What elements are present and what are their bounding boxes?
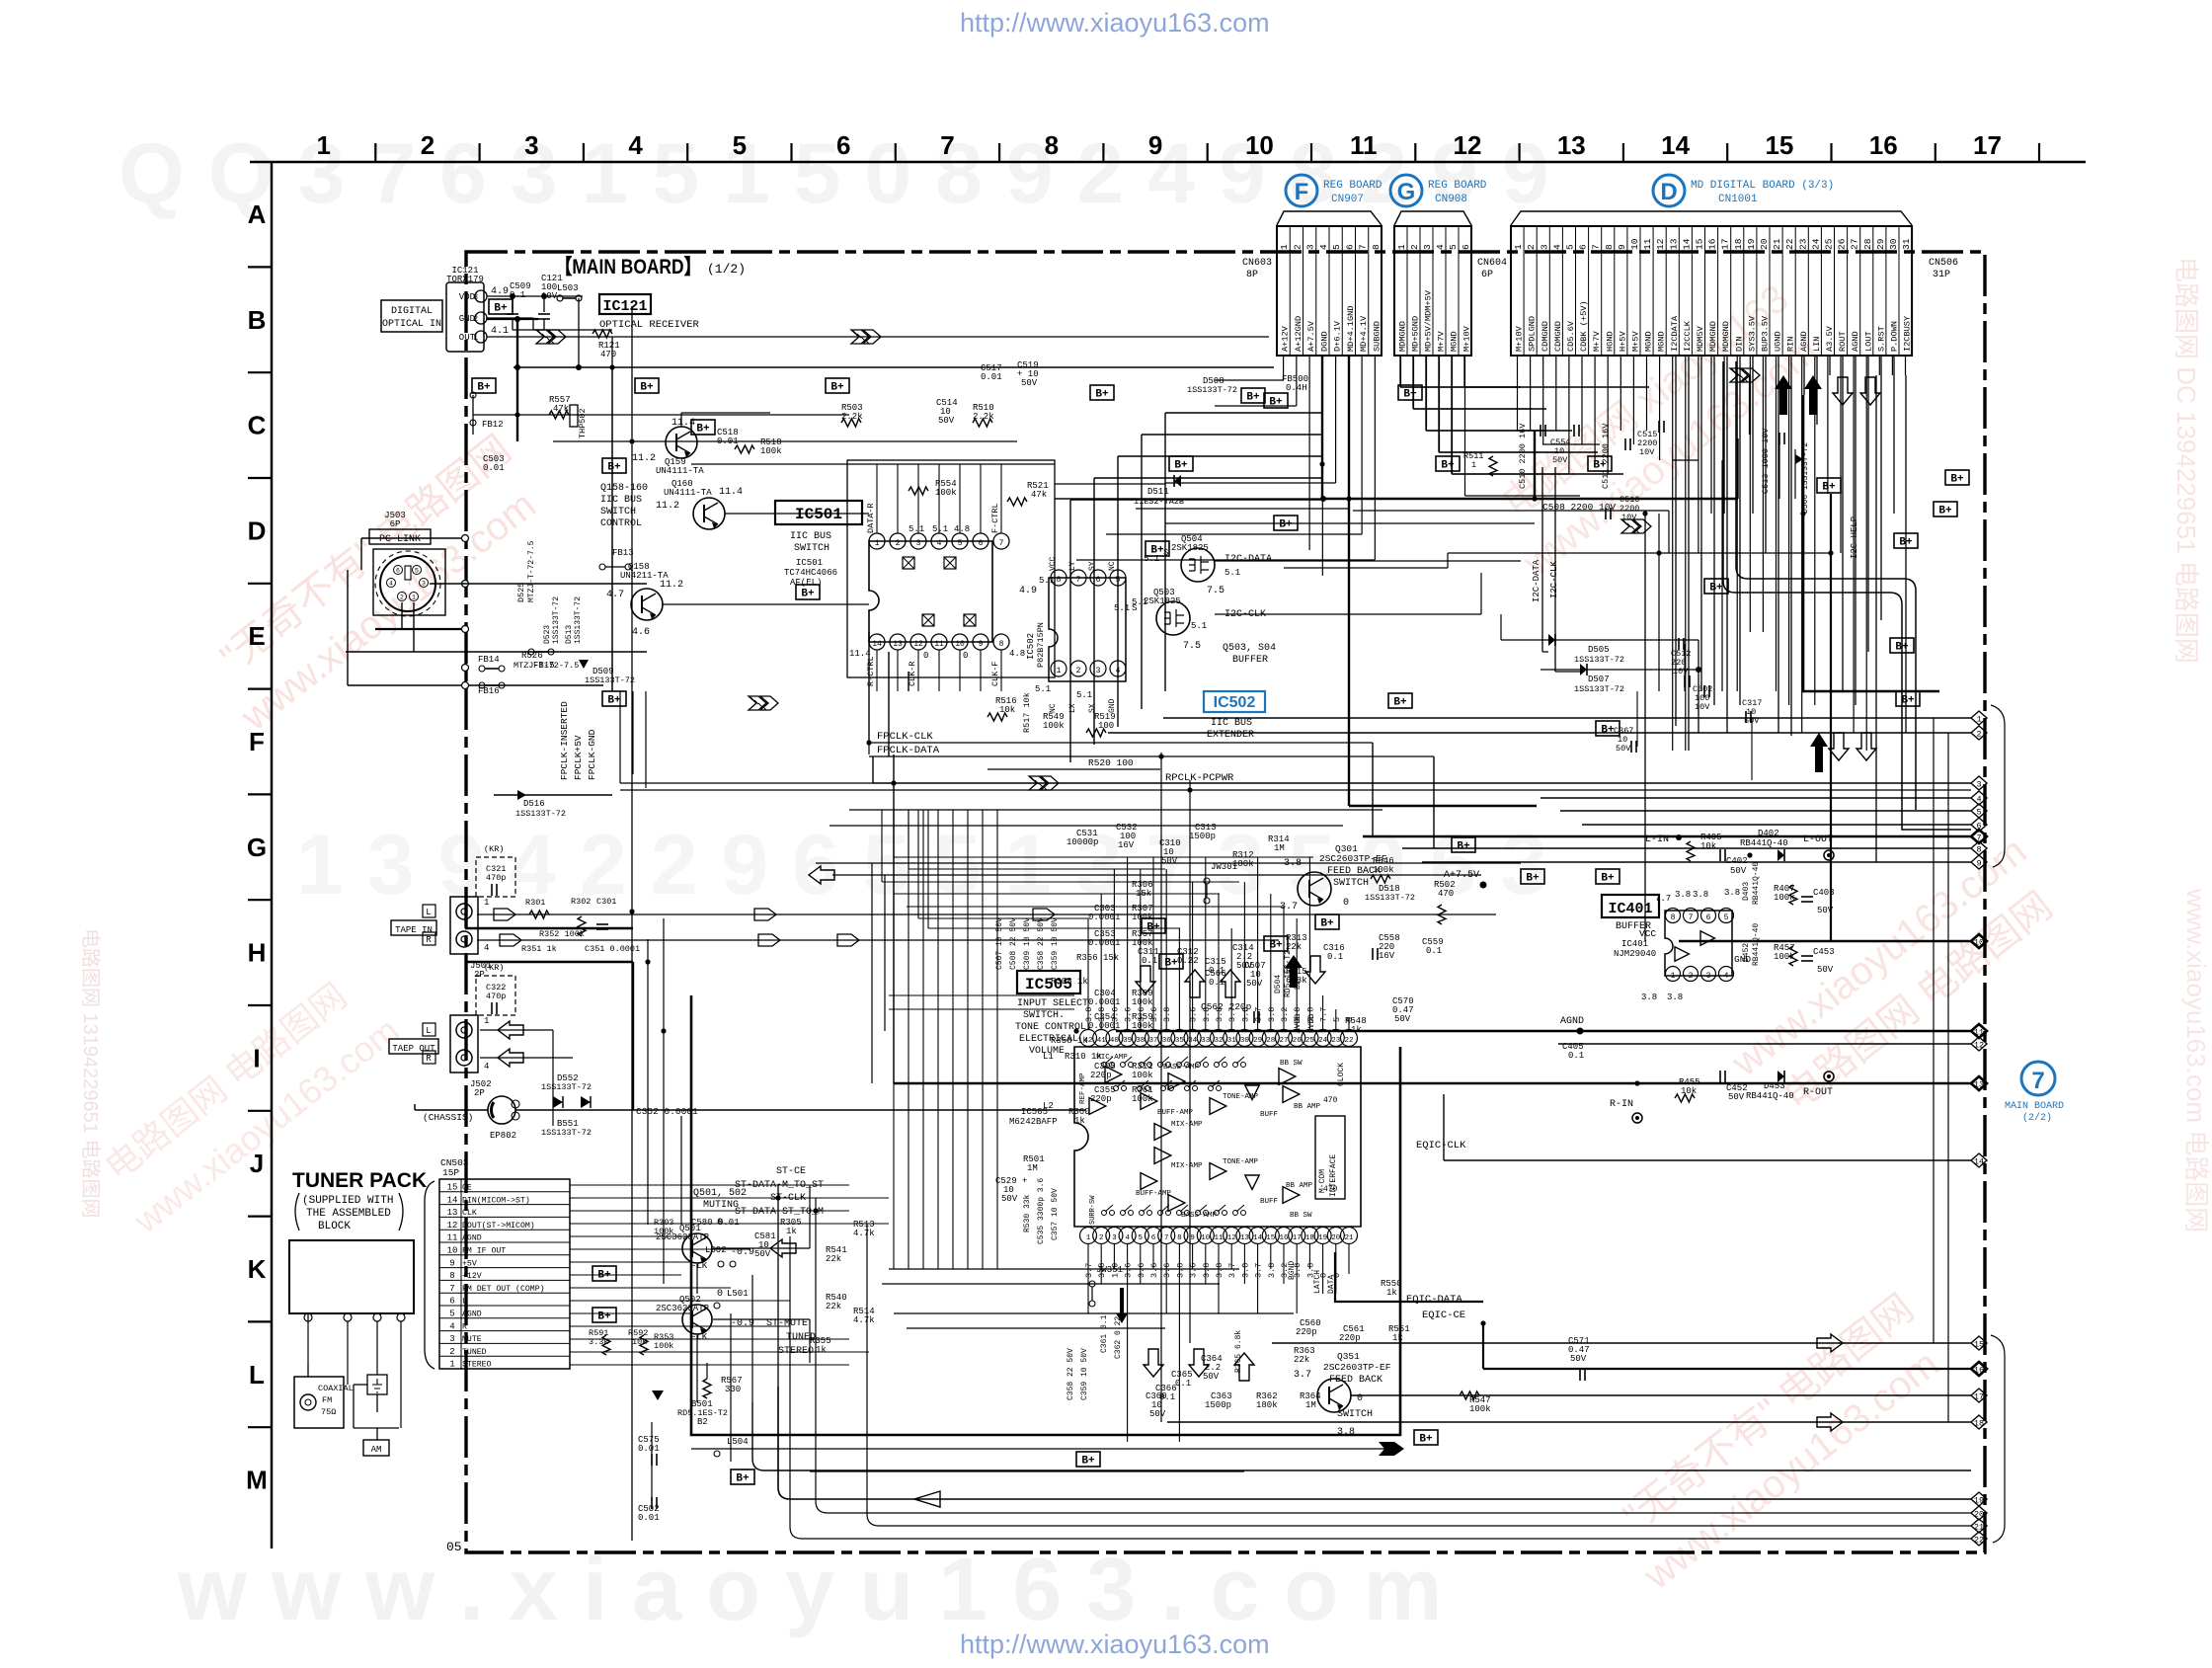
svg-text:MD+5GND: MD+5GND — [1411, 316, 1421, 352]
svg-text:R-OUT: R-OUT — [1803, 1087, 1833, 1098]
svg-text:1SS133T-72: 1SS133T-72 — [1365, 893, 1415, 903]
wire CN1001 curtain deep drops — [1675, 356, 1677, 726]
watermark pink diagonal left lower — [89, 963, 407, 1241]
svg-text:26: 26 — [1837, 238, 1848, 250]
svg-text:4.1: 4.1 — [491, 326, 509, 337]
svg-text:7: 7 — [449, 1284, 454, 1294]
wire GND thick — [486, 318, 538, 320]
IC505 top fan wires — [1087, 918, 1089, 1029]
svg-text:VCC: VCC — [1049, 556, 1058, 571]
svg-text:50V: 50V — [1161, 856, 1178, 866]
wire optical gnd — [533, 329, 612, 331]
svg-text:3.6: 3.6 — [1137, 1263, 1146, 1278]
power B+ label — [1704, 579, 1728, 594]
svg-text:4: 4 — [1976, 795, 1981, 805]
svg-text:UGND: UGND — [1774, 331, 1783, 352]
filled arrows under RIN LIN — [1775, 375, 1792, 415]
svg-text:05: 05 — [446, 1540, 462, 1554]
main board dash-dot border — [466, 252, 1985, 1552]
svg-text:3.8: 3.8 — [1202, 1263, 1212, 1278]
CN1001 pin drop wires — [1517, 356, 1519, 431]
svg-text:1M: 1M — [1274, 843, 1285, 853]
svg-text:B+: B+ — [1393, 697, 1407, 709]
svg-text:TORX179: TORX179 — [446, 275, 484, 284]
wire 1973 vertical — [1947, 733, 1949, 1422]
svg-text:TAPE IN: TAPE IN — [395, 925, 433, 935]
power B+ label — [1315, 914, 1339, 929]
wire 1930 vertical — [1905, 375, 1907, 733]
svg-text:C507 10 50V: C507 10 50V — [995, 917, 1004, 970]
svg-text:DGND: DGND — [1319, 331, 1329, 352]
svg-text:D513: D513 — [565, 625, 574, 644]
svg-text:19: 19 — [1746, 238, 1757, 250]
tuner bottom wires — [651, 1422, 653, 1501]
tuner pack wires down — [307, 1313, 309, 1363]
svg-text:M6242BAFP: M6242BAFP — [1009, 1117, 1058, 1127]
svg-text:5.1: 5.1 — [932, 524, 948, 534]
svg-text:I2CDATA: I2CDATA — [1670, 315, 1680, 352]
svg-text:220p: 220p — [1090, 1094, 1112, 1104]
right bracket curve — [1991, 705, 2005, 867]
svg-text:L: L — [426, 1026, 431, 1036]
svg-text:16V: 16V — [1118, 840, 1135, 850]
digital optical in label box — [381, 300, 442, 332]
svg-text:http://www.xiaoyu163.com: http://www.xiaoyu163.com — [960, 1629, 1270, 1659]
svg-text:100k: 100k — [1469, 1404, 1491, 1414]
TAEP OUT jack body — [450, 1015, 478, 1072]
svg-text:14: 14 — [1661, 130, 1690, 160]
svg-text:1SS133T-72: 1SS133T-72 — [541, 1082, 592, 1092]
svg-text:FPCLK-DATA: FPCLK-DATA — [877, 745, 940, 756]
svg-text:IC401: IC401 — [1621, 939, 1648, 949]
svg-text:DOUT(ST->MICOM): DOUT(ST->MICOM) — [462, 1221, 535, 1231]
svg-text:2: 2 — [421, 130, 434, 160]
fan horizontals above ic505 — [894, 856, 1313, 858]
svg-text:BB SW: BB SW — [1290, 1212, 1312, 1220]
wire to edge 19 with elbow — [778, 1387, 1971, 1499]
PC LINK pins — [394, 566, 403, 575]
svg-text:26: 26 — [1293, 1037, 1303, 1045]
svg-text:16: 16 — [1974, 1366, 1984, 1376]
svg-text:0: 0 — [1332, 1273, 1342, 1278]
svg-text:0.1: 0.1 — [1426, 946, 1442, 956]
power B+ label — [691, 420, 715, 435]
TUNER PACK box — [289, 1240, 414, 1313]
wire I2C to left — [1542, 651, 1548, 653]
svg-text:B+: B+ — [1150, 545, 1164, 557]
power B+ label — [1274, 516, 1298, 530]
svg-text:3.7: 3.7 — [1227, 1263, 1237, 1278]
svg-text:11: 11 — [934, 640, 944, 649]
svg-text:4.7: 4.7 — [606, 590, 624, 600]
svg-text:19: 19 — [1974, 1496, 1984, 1506]
svg-text:10k: 10k — [999, 705, 1015, 715]
edge connector arrow 13 — [1971, 1076, 1987, 1090]
edge connector arrow 4 — [1971, 791, 1987, 805]
wire to edge 9 — [1422, 861, 1971, 863]
svg-text:BB SW: BB SW — [1280, 1060, 1303, 1068]
power B+ label — [602, 458, 626, 473]
verticals left of IC505 block — [893, 810, 895, 1269]
svg-text:10: 10 — [955, 640, 965, 649]
svg-text:(1/2): (1/2) — [707, 262, 746, 277]
svg-text:7: 7 — [1689, 913, 1694, 922]
wire GND drop — [532, 318, 534, 330]
svg-text:OUT: OUT — [459, 333, 476, 343]
svg-text:C301: C301 — [596, 897, 616, 907]
vertical 1744 — [1721, 460, 1723, 691]
tape R line — [477, 939, 1279, 941]
svg-text:BUFF-AMP: BUFF-AMP — [1157, 1109, 1194, 1117]
svg-text:7.7: 7.7 — [1319, 1007, 1329, 1022]
svg-text:0: 0 — [1319, 1273, 1329, 1278]
svg-text:B+: B+ — [1269, 940, 1283, 952]
svg-text:22k: 22k — [826, 1302, 841, 1311]
svg-text:A+7.5V: A+7.5V — [1306, 320, 1316, 352]
svg-text:S: S — [1132, 603, 1137, 613]
svg-text:6P: 6P — [1481, 270, 1493, 280]
filled arrow C367 — [1810, 733, 1828, 772]
svg-text:4: 4 — [1318, 244, 1329, 250]
TUNER PACK pins — [304, 1313, 312, 1321]
svg-text:3.2: 3.2 — [1280, 1007, 1290, 1022]
svg-text:0.1: 0.1 — [1175, 1379, 1191, 1389]
svg-text:RPCLK-PCPWR: RPCLK-PCPWR — [1165, 772, 1234, 784]
wire to edge 12 — [1558, 1043, 1971, 1045]
board ref D circle MD DIGITAL BOARD — [1653, 175, 1685, 206]
svg-text:R: R — [426, 935, 432, 945]
vertical 1466 — [1447, 553, 1449, 568]
edge connector arrow 8 — [1971, 841, 1987, 855]
svg-text:MIX-AMP: MIX-AMP — [1171, 1162, 1203, 1170]
svg-text:MD+5V/MDM+5V: MD+5V/MDM+5V — [1424, 289, 1434, 352]
svg-text:13: 13 — [1668, 238, 1679, 250]
svg-text:8: 8 — [1604, 244, 1615, 250]
svg-text:BUFFER: BUFFER — [1232, 655, 1268, 666]
power B+ label — [826, 378, 849, 393]
svg-text:BUFF: BUFF — [1260, 1198, 1278, 1206]
connector CN604 pin array — [1394, 226, 1471, 356]
edge connector arrow 18 — [1971, 1415, 1987, 1429]
svg-text:(CHASSIS): (CHASSIS) — [423, 1112, 473, 1123]
svg-text:(SUPPLIED WITH: (SUPPLIED WITH — [302, 1195, 393, 1207]
Q159 transistor — [666, 427, 697, 458]
svg-text:31P: 31P — [1933, 270, 1950, 280]
wire cascade elbow set A — [1399, 356, 1401, 387]
svg-text:L501: L501 — [727, 1289, 749, 1299]
svg-text:3.8: 3.8 — [1293, 1007, 1303, 1022]
svg-text:IC501: IC501 — [796, 558, 823, 568]
power B+ label — [592, 1308, 616, 1322]
svg-text:6: 6 — [1578, 244, 1589, 250]
svg-text:2: 2 — [1689, 972, 1694, 981]
wire RPCLK long to edge — [620, 789, 1971, 791]
svg-text:5.1: 5.1 — [1035, 684, 1051, 694]
svg-text:FM: FM — [322, 1395, 332, 1405]
power B+ label — [592, 1266, 616, 1281]
svg-text:SWITCH: SWITCH — [600, 507, 636, 517]
svg-text:ROUT: ROUT — [1838, 331, 1848, 352]
svg-text:L504: L504 — [727, 1437, 749, 1447]
junction C509 — [510, 293, 515, 299]
svg-text:36: 36 — [1162, 1037, 1172, 1045]
svg-text:S.RST: S.RST — [1876, 326, 1886, 352]
watermark pink diagonal right upper — [1478, 277, 1833, 586]
wires IC501 bottom fan — [876, 650, 878, 691]
svg-text:R358 1k: R358 1k — [1051, 1036, 1088, 1046]
PC LINK label box — [369, 529, 431, 544]
svg-text:4.8: 4.8 — [954, 524, 970, 534]
svg-text:4: 4 — [1551, 244, 1562, 250]
svg-text:1: 1 — [1471, 460, 1476, 470]
svg-text:D507: D507 — [1588, 675, 1610, 684]
svg-text:CN604: CN604 — [1477, 258, 1507, 269]
power B+ label — [1142, 918, 1165, 933]
svg-text:B+: B+ — [494, 303, 508, 315]
svg-text:470p: 470p — [486, 992, 506, 1001]
svg-text:CDBK (+5V): CDBK (+5V) — [1579, 300, 1589, 352]
IC401 top pins — [1666, 909, 1681, 923]
svg-text:7: 7 — [1164, 1234, 1169, 1242]
TAEP OUT jack L — [456, 1022, 472, 1038]
svg-text:4: 4 — [389, 581, 393, 588]
svg-text:1SS133T-72: 1SS133T-72 — [541, 1128, 592, 1138]
svg-text:3.8: 3.8 — [1084, 1007, 1094, 1022]
svg-text:8: 8 — [1057, 576, 1062, 585]
power B+ label — [1398, 385, 1422, 400]
svg-text:CE: CE — [462, 1184, 472, 1193]
svg-text:SYS3.5V: SYS3.5V — [1747, 315, 1757, 352]
svg-text:3.8: 3.8 — [1240, 1263, 1250, 1278]
svg-text:SX: SX — [1088, 703, 1097, 713]
svg-text:L: L — [249, 1360, 265, 1390]
wire Q160 — [725, 513, 869, 515]
FPCLK-DATA wire — [869, 755, 1434, 757]
svg-text:CONTROL: CONTROL — [600, 518, 642, 529]
svg-text:3.8: 3.8 — [1293, 1263, 1303, 1278]
mid thin lines to IC401 ins — [889, 994, 1074, 996]
power B+ label — [1890, 638, 1914, 653]
wire tape bus right — [484, 911, 632, 913]
harrow mid x840 — [837, 934, 859, 946]
svg-text:R365 6.8k: R365 6.8k — [1234, 1330, 1243, 1373]
tape thick bus 1 — [465, 927, 633, 929]
IC505 bottom pin row — [1080, 1228, 1097, 1244]
connector CN604 brace — [1394, 211, 1471, 225]
svg-text:5: 5 — [1331, 244, 1342, 250]
RPCLK-PCPWR wire — [620, 782, 873, 784]
svg-text:PC LINK: PC LINK — [379, 534, 421, 545]
svg-text:FPCLK-INSERTED: FPCLK-INSERTED — [559, 701, 570, 780]
collector lines below IC505 — [889, 1268, 1239, 1270]
svg-text:R301: R301 — [525, 898, 545, 908]
svg-text:4: 4 — [1125, 1234, 1130, 1242]
wire to edge 3 — [873, 782, 1971, 784]
svg-text:180k: 180k — [1256, 1400, 1278, 1410]
svg-text:B+: B+ — [1269, 397, 1283, 409]
svg-text:MGND: MGND — [1450, 331, 1460, 352]
svg-text:7: 7 — [940, 130, 954, 160]
svg-text:R351 1k: R351 1k — [521, 944, 557, 954]
svg-text:CDMGND: CDMGND — [1540, 321, 1550, 352]
svg-text:12: 12 — [1227, 1234, 1236, 1242]
power B+ label — [1145, 541, 1169, 556]
svg-text:M-COM: M-COM — [1318, 1169, 1327, 1193]
svg-text:11.4: 11.4 — [849, 649, 871, 659]
svg-text:B+: B+ — [1950, 474, 1964, 486]
svg-text:UN4211-TA: UN4211-TA — [620, 571, 669, 581]
edge connector arrow 10 — [1971, 934, 1987, 948]
svg-text:16: 16 — [1707, 238, 1718, 250]
svg-text:EQIC-CE: EQIC-CE — [1422, 1310, 1465, 1321]
power B+ label — [1264, 936, 1288, 951]
svg-text:29: 29 — [1875, 238, 1886, 250]
svg-text:100k: 100k — [654, 1341, 673, 1351]
power B+ label — [489, 299, 513, 314]
svg-text:1: 1 — [1671, 972, 1676, 981]
svg-text:D: D — [248, 516, 267, 545]
svg-text:MD+4.1GND: MD+4.1GND — [1346, 306, 1356, 352]
svg-text:8: 8 — [1976, 845, 1981, 855]
wire long rail y372 — [513, 366, 1274, 368]
vertical from OUT node — [611, 337, 613, 367]
power B+ label — [1436, 456, 1460, 471]
svg-text:RB441Q-40: RB441Q-40 — [1740, 838, 1788, 848]
wire EP802 to diodes — [515, 1109, 632, 1111]
R301 resistor sym — [529, 911, 549, 918]
svg-text:B+: B+ — [1822, 482, 1836, 494]
svg-text:0.0001: 0.0001 — [1088, 1021, 1120, 1031]
IC501 switch symbols — [903, 557, 914, 569]
svg-text:5.1: 5.1 — [1039, 576, 1055, 586]
wire pclink pin3 right — [430, 583, 647, 585]
svg-text:1: 1 — [875, 539, 880, 548]
vertical from FPCLK-CLK down — [1372, 743, 1374, 836]
connector CN1001 pin array — [1511, 226, 1912, 356]
svg-text:2SC3623ATP: 2SC3623ATP — [656, 1304, 709, 1313]
svg-text:REF-AMP: REF-AMP — [1079, 1072, 1087, 1104]
harrow tape mid — [770, 1239, 796, 1257]
svg-text:3: 3 — [1112, 1234, 1117, 1242]
KR dashed box C322 — [476, 976, 515, 1015]
svg-text:BB AMP: BB AMP — [1286, 1182, 1313, 1190]
svg-text:ST-CE: ST-CE — [776, 1166, 806, 1177]
power B+ label — [1090, 385, 1114, 400]
svg-text:B+: B+ — [830, 382, 844, 394]
I2C vertical pair — [1541, 467, 1543, 652]
svg-text:5: 5 — [1332, 1017, 1342, 1022]
svg-text:1k: 1k — [816, 1345, 827, 1355]
wire to edge 17 — [1351, 1394, 1971, 1396]
svg-text:8: 8 — [1371, 244, 1382, 250]
IC121 label — [599, 294, 651, 314]
svg-text:22: 22 — [1344, 1037, 1353, 1045]
svg-text:6: 6 — [979, 539, 984, 548]
svg-text:10: 10 — [1974, 938, 1984, 948]
FB12 ferrite — [472, 395, 474, 435]
svg-text:17: 17 — [1293, 1234, 1302, 1242]
svg-text:24: 24 — [1810, 238, 1821, 250]
wire to edge 13 thick — [894, 1082, 1971, 1085]
svg-text:6: 6 — [1461, 244, 1471, 250]
svg-text:14: 14 — [1681, 238, 1692, 250]
svg-text:TAEP OUT: TAEP OUT — [392, 1044, 435, 1054]
svg-text:OPTICAL IN: OPTICAL IN — [382, 319, 441, 330]
svg-text:FPCLK+5V: FPCLK+5V — [573, 735, 584, 780]
svg-text:C402: C402 — [1726, 856, 1748, 866]
svg-text:B+: B+ — [1320, 918, 1334, 930]
svg-text:3.8: 3.8 — [1675, 890, 1691, 900]
svg-text:3.8: 3.8 — [1175, 1263, 1185, 1278]
IC501 area rect frame — [847, 460, 1055, 677]
wire Q159 region — [680, 413, 682, 427]
AM label box — [363, 1440, 389, 1456]
svg-text:3.8: 3.8 — [1162, 1007, 1172, 1022]
svg-text:13: 13 — [1240, 1234, 1250, 1242]
svg-text:0.1: 0.1 — [1568, 1051, 1584, 1061]
svg-text:IC401: IC401 — [1608, 901, 1652, 917]
IC502 blue label — [1204, 691, 1265, 712]
rail y420 left — [473, 414, 849, 416]
svg-text:16V: 16V — [1379, 951, 1395, 961]
svg-text:10V: 10V — [1639, 447, 1655, 457]
muting area wires — [680, 1116, 682, 1225]
watermark pink diagonal bottom right — [1599, 1286, 1958, 1598]
svg-text:10k: 10k — [1700, 841, 1716, 851]
power B+ label — [1894, 533, 1918, 548]
svg-text:3: 3 — [1976, 780, 1981, 790]
svg-text:6: 6 — [1706, 913, 1711, 922]
svg-text:TUNER PACK: TUNER PACK — [292, 1169, 427, 1192]
IC505 audio block outline — [691, 995, 1400, 1435]
grid left border line — [271, 162, 274, 1549]
svg-text:2: 2 — [1076, 667, 1081, 675]
svg-text:R-CTRL: R-CTRL — [866, 656, 876, 686]
svg-text:RB441Q-40: RB441Q-40 — [1752, 923, 1761, 966]
svg-text:2SK1825: 2SK1825 — [1171, 543, 1209, 553]
svg-text:FPCLK-CLK: FPCLK-CLK — [877, 731, 933, 743]
svg-text:9: 9 — [1148, 130, 1162, 160]
arrow cluster below ic505 — [1144, 1349, 1163, 1377]
svg-text:7: 7 — [1358, 244, 1369, 250]
svg-text:100k: 100k — [1132, 997, 1153, 1007]
svg-text:MTZJ-T-72-7.5: MTZJ-T-72-7.5 — [527, 540, 536, 602]
svg-text:22k: 22k — [826, 1254, 841, 1264]
svg-text:+5V: +5V — [462, 1259, 477, 1268]
long rail y575 — [1284, 567, 1448, 569]
svg-text:24: 24 — [1318, 1037, 1328, 1045]
edge connector arrow 2 — [1971, 726, 1987, 740]
svg-text:8: 8 — [1045, 130, 1059, 160]
svg-text:D+6.1V: D+6.1V — [1333, 320, 1343, 352]
svg-text:5.1: 5.1 — [1224, 568, 1240, 578]
harrow taep 1 — [498, 1021, 523, 1039]
svg-text:50V: 50V — [1246, 979, 1263, 989]
Q351 transistor — [1317, 1379, 1351, 1412]
svg-text:B+: B+ — [477, 382, 491, 394]
wire FPCLK drops — [619, 691, 621, 760]
thick elbow right — [1803, 395, 1939, 691]
svg-text:电路图网 DC 1394229651 电路图网: 电路图网 DC 1394229651 电路图网 — [2172, 257, 2201, 664]
svg-text:7.5: 7.5 — [1207, 586, 1224, 596]
svg-text:C510 2200 16V: C510 2200 16V — [1518, 423, 1528, 489]
wire to edge 15 — [1272, 1342, 1971, 1344]
IC502 top pins — [1051, 570, 1066, 586]
svg-text:0.01: 0.01 — [981, 372, 1002, 382]
svg-text:18: 18 — [1733, 238, 1744, 250]
svg-text:1: 1 — [1396, 244, 1407, 250]
Q158 transistor — [631, 589, 663, 620]
